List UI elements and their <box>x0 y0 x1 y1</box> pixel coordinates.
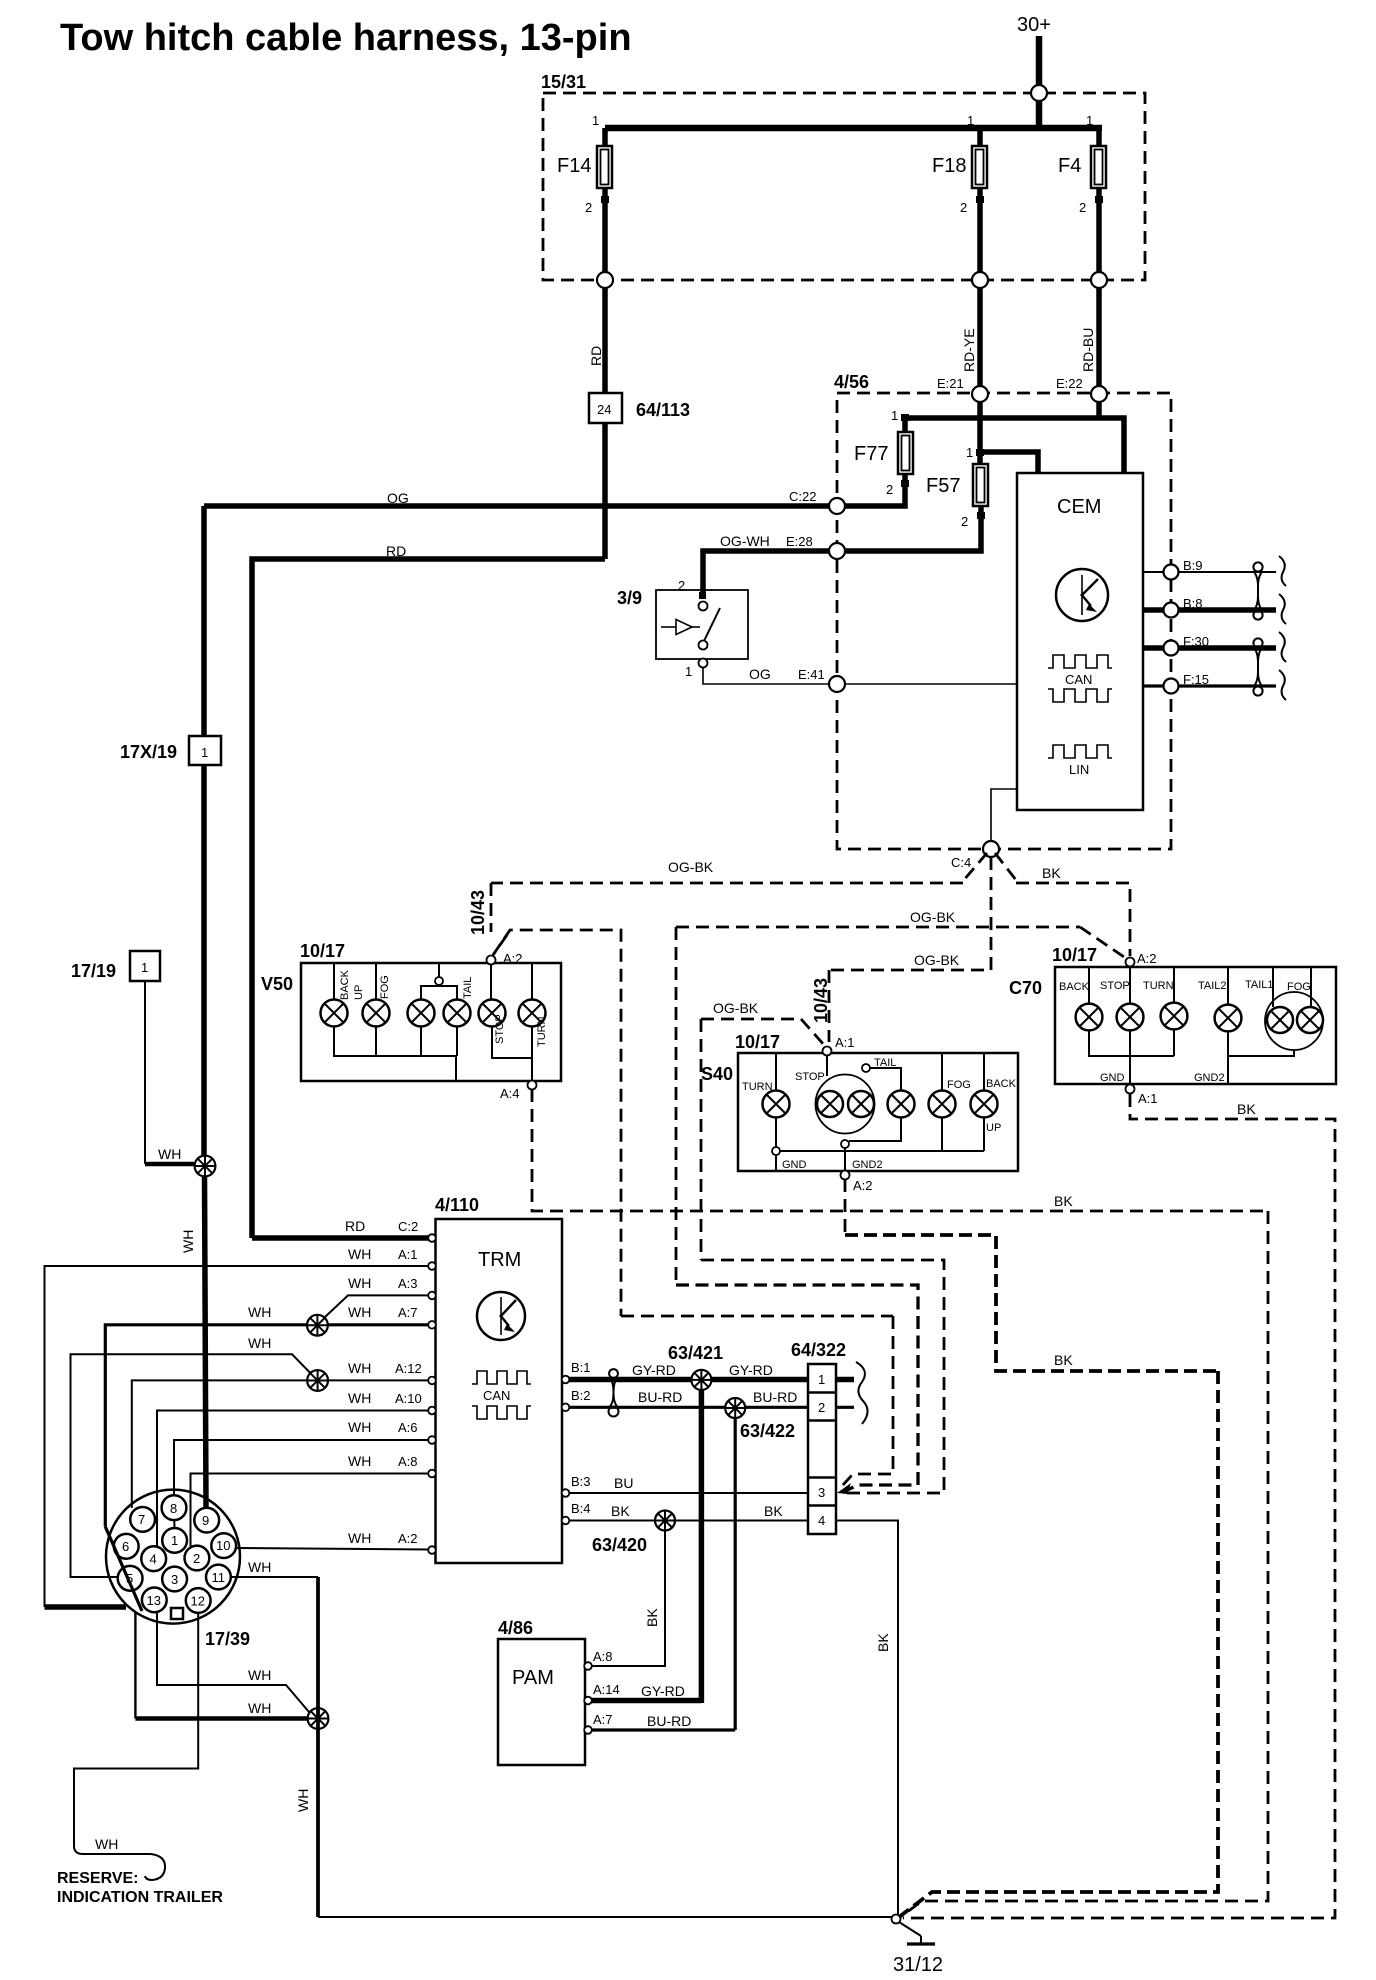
svg-text:30+: 30+ <box>1017 14 1051 36</box>
svg-text:BK: BK <box>1237 1101 1256 1117</box>
svg-text:A:7: A:7 <box>398 1305 418 1320</box>
svg-text:6: 6 <box>122 1539 129 1554</box>
wire OG-BK long from C:4 to V50 branch <box>491 882 963 885</box>
svg-text:4/86: 4/86 <box>498 1618 533 1638</box>
wire WH pin12 reserve <box>74 1613 198 1846</box>
svg-text:WH: WH <box>248 1559 271 1575</box>
wire BK V50 A:4 lower route <box>899 1211 1268 1918</box>
fuse F4 <box>1058 113 1106 280</box>
wire pin8 to pin1 link <box>173 1520 175 1528</box>
svg-text:UP: UP <box>986 1122 1001 1134</box>
svg-text:2: 2 <box>818 1400 825 1415</box>
lamp S40 TAIL <box>888 1091 915 1118</box>
wire BK from 64/322 pin4 to ground <box>836 1521 898 1917</box>
twisted pair symbol B:9/B:8 <box>1253 562 1262 571</box>
svg-text:A:2: A:2 <box>1137 951 1157 966</box>
svg-text:OG-BK: OG-BK <box>914 952 960 968</box>
svg-text:B:1: B:1 <box>571 1360 591 1375</box>
svg-text:TAIL1: TAIL1 <box>1245 979 1274 991</box>
svg-text:A:1: A:1 <box>398 1247 418 1262</box>
wire WH from 17/19 <box>144 981 146 1164</box>
svg-text:WH: WH <box>348 1304 371 1320</box>
svg-text:GY-RD: GY-RD <box>729 1362 773 1378</box>
switch 3/9 <box>617 578 748 679</box>
lamp C70 TAIL2 <box>1198 980 1241 1031</box>
svg-text:10: 10 <box>216 1538 230 1553</box>
lamp V50 BACKUP feed <box>333 963 335 1000</box>
wire RD-BU from F4 <box>1096 288 1102 390</box>
lamp C70 TURN <box>1143 980 1187 1029</box>
connector 64/322 <box>791 1340 846 1534</box>
svg-text:1: 1 <box>1086 113 1093 128</box>
svg-text:A:2: A:2 <box>853 1178 873 1193</box>
ground 31/12 <box>892 1915 944 1977</box>
wire BK from C70 A:1 <box>903 1094 1335 1918</box>
svg-text:TRM: TRM <box>478 1249 521 1271</box>
svg-text:64/113: 64/113 <box>636 400 690 420</box>
svg-text:4: 4 <box>150 1552 157 1567</box>
pin 3 <box>162 1567 187 1592</box>
wire WH main vertical upper <box>201 765 207 1166</box>
wire E:22 stub <box>1096 402 1102 418</box>
svg-text:WH: WH <box>348 1390 371 1406</box>
svg-text:GY-RD: GY-RD <box>632 1362 676 1378</box>
connector 17/39 13-pin <box>106 1490 250 1649</box>
wire RD from F14 <box>602 288 608 393</box>
svg-text:GND: GND <box>782 1159 807 1171</box>
svg-text:3/9: 3/9 <box>617 588 642 608</box>
lamp V50 BACKUP <box>321 969 366 1026</box>
lamp C70 BACK feed <box>1088 967 1090 1004</box>
svg-text:V50: V50 <box>261 974 293 994</box>
svg-text:2: 2 <box>585 200 592 215</box>
svg-text:10/43: 10/43 <box>811 978 831 1023</box>
svg-text:A:14: A:14 <box>593 1682 620 1697</box>
svg-text:E:22: E:22 <box>1056 376 1083 391</box>
svg-text:24: 24 <box>597 402 611 417</box>
svg-text:2: 2 <box>886 482 893 497</box>
wire OG-BK S40 A:2 to ground route <box>844 1179 847 1235</box>
wire WH thick into pin13 <box>45 1604 127 1610</box>
svg-text:LIN: LIN <box>1069 762 1089 777</box>
module CEM <box>1017 473 1143 810</box>
wire end hook F:15 <box>1279 670 1286 700</box>
splice 63/422 <box>725 1398 745 1418</box>
wire WH main vertical lower <box>205 1176 207 1507</box>
wire C70 GND feed <box>1129 1031 1131 1085</box>
fuse F57 <box>845 445 1038 551</box>
wire WH pin13 lower bus thick <box>135 1716 308 1721</box>
svg-text:B:9: B:9 <box>1183 558 1203 573</box>
svg-text:1: 1 <box>891 408 898 423</box>
svg-text:4/110: 4/110 <box>435 1195 479 1215</box>
wire OG-BK V50 A:2 to pin3 route <box>493 930 621 1316</box>
svg-text:TURN: TURN <box>742 1081 773 1093</box>
svg-text:BK: BK <box>1054 1193 1073 1209</box>
wire OG from switch pin1 to E:41 <box>703 667 837 684</box>
svg-text:F57: F57 <box>926 475 960 497</box>
lamp cluster V50 <box>261 941 561 1081</box>
svg-text:F77: F77 <box>854 443 888 465</box>
svg-text:BK: BK <box>644 1608 660 1627</box>
svg-text:17X/19: 17X/19 <box>120 742 177 762</box>
svg-text:WH: WH <box>248 1304 271 1320</box>
svg-text:TURN: TURN <box>1143 980 1174 992</box>
lamp C70 STOP <box>1100 980 1143 1030</box>
svg-text:10/17: 10/17 <box>300 941 345 961</box>
wire end hook F:30 <box>1279 632 1286 662</box>
wire OG-BK routes into pin3 <box>621 1315 893 1318</box>
svg-text:3: 3 <box>171 1572 178 1587</box>
svg-text:1: 1 <box>592 113 599 128</box>
wire OG-BK vertical x701 <box>700 1019 703 1260</box>
svg-text:A:12: A:12 <box>395 1361 422 1376</box>
svg-text:63/420: 63/420 <box>592 1535 647 1555</box>
wire bottom ground bus <box>318 1916 892 1918</box>
svg-text:RD-YE: RD-YE <box>961 328 977 372</box>
wire RD below 64/113 <box>602 423 608 559</box>
pin 5 <box>118 1566 143 1591</box>
pin 13 <box>142 1588 167 1613</box>
svg-text:10/17: 10/17 <box>735 1032 780 1052</box>
twisted pair symbol F:30/F:15 <box>1253 638 1262 647</box>
wire 64/322 pin2 stub <box>836 1406 854 1409</box>
svg-text:STOP: STOP <box>795 1071 825 1083</box>
pin 8 <box>162 1495 187 1520</box>
svg-text:1: 1 <box>685 664 692 679</box>
svg-text:63/422: 63/422 <box>740 1421 795 1441</box>
svg-text:C:4: C:4 <box>951 855 971 870</box>
lamp V50 FOG <box>363 975 392 1026</box>
svg-text:A:1: A:1 <box>1138 1091 1158 1106</box>
wire C70 ground bus right <box>1228 1050 1294 1056</box>
svg-text:A:4: A:4 <box>500 1086 520 1101</box>
wire RD-YE from F18 <box>977 288 983 390</box>
svg-text:TAIL2: TAIL2 <box>1198 980 1227 992</box>
svg-text:STOP: STOP <box>494 1014 506 1044</box>
lamp S40 BACKUP feed <box>983 1053 985 1090</box>
lamp S40 BACKUP <box>971 1078 1017 1134</box>
svg-text:F14: F14 <box>557 155 591 177</box>
svg-text:WH: WH <box>180 1230 196 1253</box>
wire C70 ground bus left <box>1089 1031 1174 1057</box>
svg-text:TAIL: TAIL <box>462 977 474 999</box>
svg-text:A:2: A:2 <box>398 1531 418 1546</box>
wire V50 ground bus right <box>492 1027 532 1082</box>
wire WH diagonal into pin13 <box>105 1527 142 1611</box>
wire BK from V50 A:4 <box>532 1089 1268 1211</box>
svg-text:1: 1 <box>818 1372 825 1387</box>
svg-text:INDICATION TRAILER: INDICATION TRAILER <box>57 1889 223 1906</box>
wire OG-WH to switch <box>703 551 837 599</box>
svg-text:31/12: 31/12 <box>893 1954 943 1976</box>
svg-text:WH: WH <box>348 1530 371 1546</box>
fuse F18 <box>932 113 987 280</box>
svg-text:A:6: A:6 <box>398 1420 418 1435</box>
svg-text:B:2: B:2 <box>571 1388 591 1403</box>
wire OG-BK S40 A:1 horizontal <box>701 1018 801 1021</box>
svg-text:WH: WH <box>248 1700 271 1716</box>
lamp C70 TAIL1/FOG dual <box>1245 967 1323 1050</box>
node C70 A:2 <box>1126 958 1135 967</box>
svg-text:OG-WH: OG-WH <box>720 533 770 549</box>
node S40 TAIL tap <box>862 1064 870 1072</box>
svg-text:BACK: BACK <box>986 1078 1017 1090</box>
wire S40 TAIL ground <box>849 1118 901 1142</box>
wire WH pin13 second branch <box>157 1612 309 1712</box>
lamp C70 TAIL2 feed <box>1227 967 1229 1005</box>
wire continuation squiggle 64/322 <box>856 1362 868 1424</box>
key square <box>171 1608 183 1619</box>
svg-text:A:10: A:10 <box>395 1391 422 1406</box>
node C70 A:1 <box>1126 1085 1135 1094</box>
wire OG-BK from C:4 stem down <box>829 857 991 970</box>
pin 7 <box>130 1507 155 1532</box>
lamp V50 TURN <box>519 1000 549 1048</box>
svg-text:WH: WH <box>95 1836 118 1852</box>
lamp C70 STOP feed <box>1129 966 1131 1004</box>
svg-text:BACK: BACK <box>1059 981 1090 993</box>
svg-text:2: 2 <box>960 200 967 215</box>
lamp S40 FOG <box>929 1079 971 1118</box>
node F18 on 15/31 border <box>972 272 988 288</box>
svg-text:12: 12 <box>191 1594 205 1609</box>
svg-text:2: 2 <box>193 1551 200 1566</box>
svg-text:BK: BK <box>764 1503 783 1519</box>
lamp C70 TURN feed <box>1173 967 1175 1003</box>
node 30+ on 15/31 border <box>1031 85 1047 101</box>
svg-text:11: 11 <box>212 1570 226 1585</box>
lamp S40 TURN feed <box>775 1053 777 1090</box>
svg-text:2: 2 <box>1079 200 1086 215</box>
pin 11 <box>206 1565 231 1590</box>
svg-text:WH: WH <box>295 1789 311 1812</box>
svg-text:OG-BK: OG-BK <box>713 1000 759 1016</box>
connector 64/113 pin 24 <box>589 393 622 423</box>
svg-text:RD-BU: RD-BU <box>1080 328 1096 372</box>
svg-text:B:4: B:4 <box>571 1501 591 1516</box>
module PAM <box>498 1618 585 1765</box>
splice 13pin A12 <box>307 1370 328 1391</box>
svg-text:WH: WH <box>348 1360 371 1376</box>
svg-text:WH: WH <box>248 1667 271 1683</box>
wire WH pin13 to splice vertical <box>134 1613 136 1719</box>
node S40 A:2 <box>841 1171 850 1180</box>
svg-text:C:22: C:22 <box>789 489 816 504</box>
pin 4 <box>141 1546 166 1571</box>
wire S40 GND2 stub <box>844 1148 846 1171</box>
svg-text:Tow hitch cable harness, 13-pi: Tow hitch cable harness, 13-pin <box>60 17 632 59</box>
svg-text:OG: OG <box>749 666 771 682</box>
lamp V50 STOP feed <box>490 965 492 1000</box>
wire V50 ground bus left <box>334 1027 456 1082</box>
pin 6 <box>114 1534 139 1559</box>
wire S40 GND stub <box>775 1155 777 1171</box>
pin 10 <box>211 1533 236 1558</box>
svg-text:64/322: 64/322 <box>791 1340 846 1360</box>
svg-text:8: 8 <box>170 1501 177 1516</box>
splice WH bottom <box>308 1708 329 1729</box>
svg-text:OG-BK: OG-BK <box>668 859 714 875</box>
svg-text:OG-BK: OG-BK <box>910 909 956 925</box>
splice 63/421 <box>691 1370 711 1390</box>
lamp C70 BACK <box>1059 981 1102 1030</box>
svg-text:RD: RD <box>588 346 604 366</box>
svg-text:UP: UP <box>353 985 365 1000</box>
svg-text:BU: BU <box>614 1475 633 1491</box>
svg-text:E:21: E:21 <box>937 376 964 391</box>
splice 13pin A7/A3 <box>307 1315 328 1336</box>
svg-text:BK: BK <box>611 1503 630 1519</box>
svg-text:FOG: FOG <box>947 1079 971 1091</box>
fuse F14 <box>557 113 612 280</box>
wire WH pin11 to bottom <box>231 1576 318 1578</box>
wire end hook B:9 <box>1279 556 1286 586</box>
svg-text:WH: WH <box>248 1335 271 1351</box>
svg-text:1: 1 <box>967 113 974 128</box>
svg-text:BK: BK <box>1054 1352 1073 1368</box>
svg-text:GY-RD: GY-RD <box>641 1683 685 1699</box>
svg-text:A:7: A:7 <box>593 1712 613 1727</box>
wire fuse bus <box>605 125 1102 132</box>
wire OG horizontal <box>204 503 837 509</box>
lamp V50 TAIL1 <box>408 1000 435 1027</box>
svg-text:S40: S40 <box>701 1064 733 1084</box>
wire OG-BK drop to S40 A:1 <box>828 970 831 1042</box>
svg-text:CAN: CAN <box>483 1388 510 1403</box>
svg-text:9: 9 <box>202 1513 209 1528</box>
svg-text:A:8: A:8 <box>593 1649 613 1664</box>
pin 12 <box>186 1588 211 1613</box>
wire S40 TAIL feed <box>870 1068 901 1090</box>
svg-text:A:2: A:2 <box>503 951 523 966</box>
svg-text:FOG: FOG <box>1287 981 1311 993</box>
svg-text:10/43: 10/43 <box>468 890 488 935</box>
lamp S40 STOP dual circle <box>795 1055 875 1134</box>
wire BK from C:4 to C70 A:2 <box>995 853 1016 880</box>
svg-text:4: 4 <box>818 1513 825 1528</box>
svg-text:10/17: 10/17 <box>1052 945 1097 965</box>
svg-text:WH: WH <box>348 1275 371 1291</box>
svg-text:F4: F4 <box>1058 155 1081 177</box>
fuse F77 <box>837 408 913 506</box>
svg-text:GND2: GND2 <box>1194 1072 1225 1084</box>
svg-text:RD: RD <box>386 543 406 559</box>
lamp cluster S40 <box>701 1032 1018 1171</box>
svg-text:WH: WH <box>158 1146 181 1162</box>
node V50 A:4 <box>528 1081 537 1090</box>
svg-text:A:8: A:8 <box>398 1454 418 1469</box>
wire 64/322 pin1 stub <box>836 1377 854 1383</box>
svg-text:13: 13 <box>147 1593 161 1608</box>
svg-text:15/31: 15/31 <box>541 72 586 92</box>
svg-text:WH: WH <box>348 1246 371 1262</box>
svg-text:TURN: TURN <box>536 1016 548 1047</box>
splice 63/420 <box>655 1511 675 1531</box>
svg-text:2: 2 <box>961 514 968 529</box>
svg-text:GND: GND <box>1100 1072 1125 1084</box>
svg-text:1: 1 <box>966 445 973 460</box>
svg-text:RD: RD <box>345 1218 365 1234</box>
node F14 on 15/31 border <box>597 272 613 288</box>
svg-text:BK: BK <box>1042 865 1061 881</box>
svg-text:17/39: 17/39 <box>205 1629 250 1649</box>
node F4 on 15/31 border <box>1091 272 1107 288</box>
svg-text:STOP: STOP <box>1100 980 1130 992</box>
svg-text:WH: WH <box>348 1419 371 1435</box>
pin 1 <box>162 1528 187 1553</box>
svg-text:CAN: CAN <box>1065 672 1092 687</box>
wire S40 ground bus <box>775 1118 777 1148</box>
svg-text:7: 7 <box>138 1512 145 1527</box>
pin 9 <box>194 1508 219 1533</box>
wire top bus inside 4/56 <box>905 418 1124 473</box>
wire CEM C:4 exit <box>991 789 1017 841</box>
svg-text:3: 3 <box>818 1485 825 1500</box>
pin 2 <box>185 1546 210 1571</box>
svg-text:A:1: A:1 <box>835 1035 855 1050</box>
svg-text:4/56: 4/56 <box>834 372 869 392</box>
svg-text:GND2: GND2 <box>852 1159 883 1171</box>
svg-text:B:3: B:3 <box>571 1474 591 1489</box>
svg-text:BK: BK <box>875 1633 891 1652</box>
svg-text:FOG: FOG <box>379 975 391 999</box>
wire 30+ feed <box>1036 36 1043 131</box>
node V50 A:2 <box>487 956 496 965</box>
lamp S40 TURN <box>742 1081 790 1118</box>
wire E:41 to CEM <box>845 683 1017 685</box>
svg-text:E:41: E:41 <box>798 667 825 682</box>
arrow into pin3 <box>837 1483 851 1494</box>
wire OG-BK drop to V50 A:2 <box>490 883 493 932</box>
svg-text:63/421: 63/421 <box>668 1343 723 1363</box>
svg-text:OG: OG <box>387 490 409 506</box>
wire V50 TAIL bridge <box>421 986 457 1000</box>
wire E:21 to F57 junction <box>977 402 983 464</box>
wire end hook B:8 <box>1279 594 1286 624</box>
svg-text:1: 1 <box>171 1533 178 1548</box>
wire OG vertical to 17X/19 <box>201 506 207 736</box>
svg-text:BU-RD: BU-RD <box>753 1389 797 1405</box>
svg-text:WH: WH <box>348 1453 371 1469</box>
wire RD horizontal <box>252 559 605 1238</box>
svg-text:BU-RD: BU-RD <box>638 1389 682 1405</box>
lamp S40 FOG feed <box>941 1053 943 1090</box>
svg-text:PAM: PAM <box>512 1667 554 1689</box>
twisted pair symbol B1/B2 <box>609 1369 618 1378</box>
svg-text:C:2: C:2 <box>398 1219 418 1234</box>
svg-text:E:28: E:28 <box>786 534 813 549</box>
svg-text:1: 1 <box>201 745 208 760</box>
wire OG-BK branch to C70 A:2 <box>676 926 1080 929</box>
svg-text:C70: C70 <box>1009 978 1042 998</box>
wire OG-BK vertical x676 <box>675 927 678 1285</box>
lamp V50 TURN feed <box>531 963 533 1000</box>
lamp V50 STOP <box>479 1000 507 1045</box>
splice WH main <box>195 1156 216 1177</box>
node S40 A:1 <box>823 1047 832 1056</box>
svg-text:F18: F18 <box>932 155 966 177</box>
svg-text:BU-RD: BU-RD <box>647 1713 691 1729</box>
svg-text:CEM: CEM <box>1057 496 1101 518</box>
lamp cluster C70 <box>1009 945 1336 1084</box>
svg-text:A:3: A:3 <box>398 1276 418 1291</box>
lamp V50 TAIL2 <box>444 977 475 1027</box>
svg-text:1: 1 <box>141 960 148 975</box>
svg-text:17/19: 17/19 <box>71 961 116 981</box>
svg-text:BACK: BACK <box>339 969 351 1000</box>
svg-text:RESERVE:: RESERVE: <box>57 1870 139 1887</box>
